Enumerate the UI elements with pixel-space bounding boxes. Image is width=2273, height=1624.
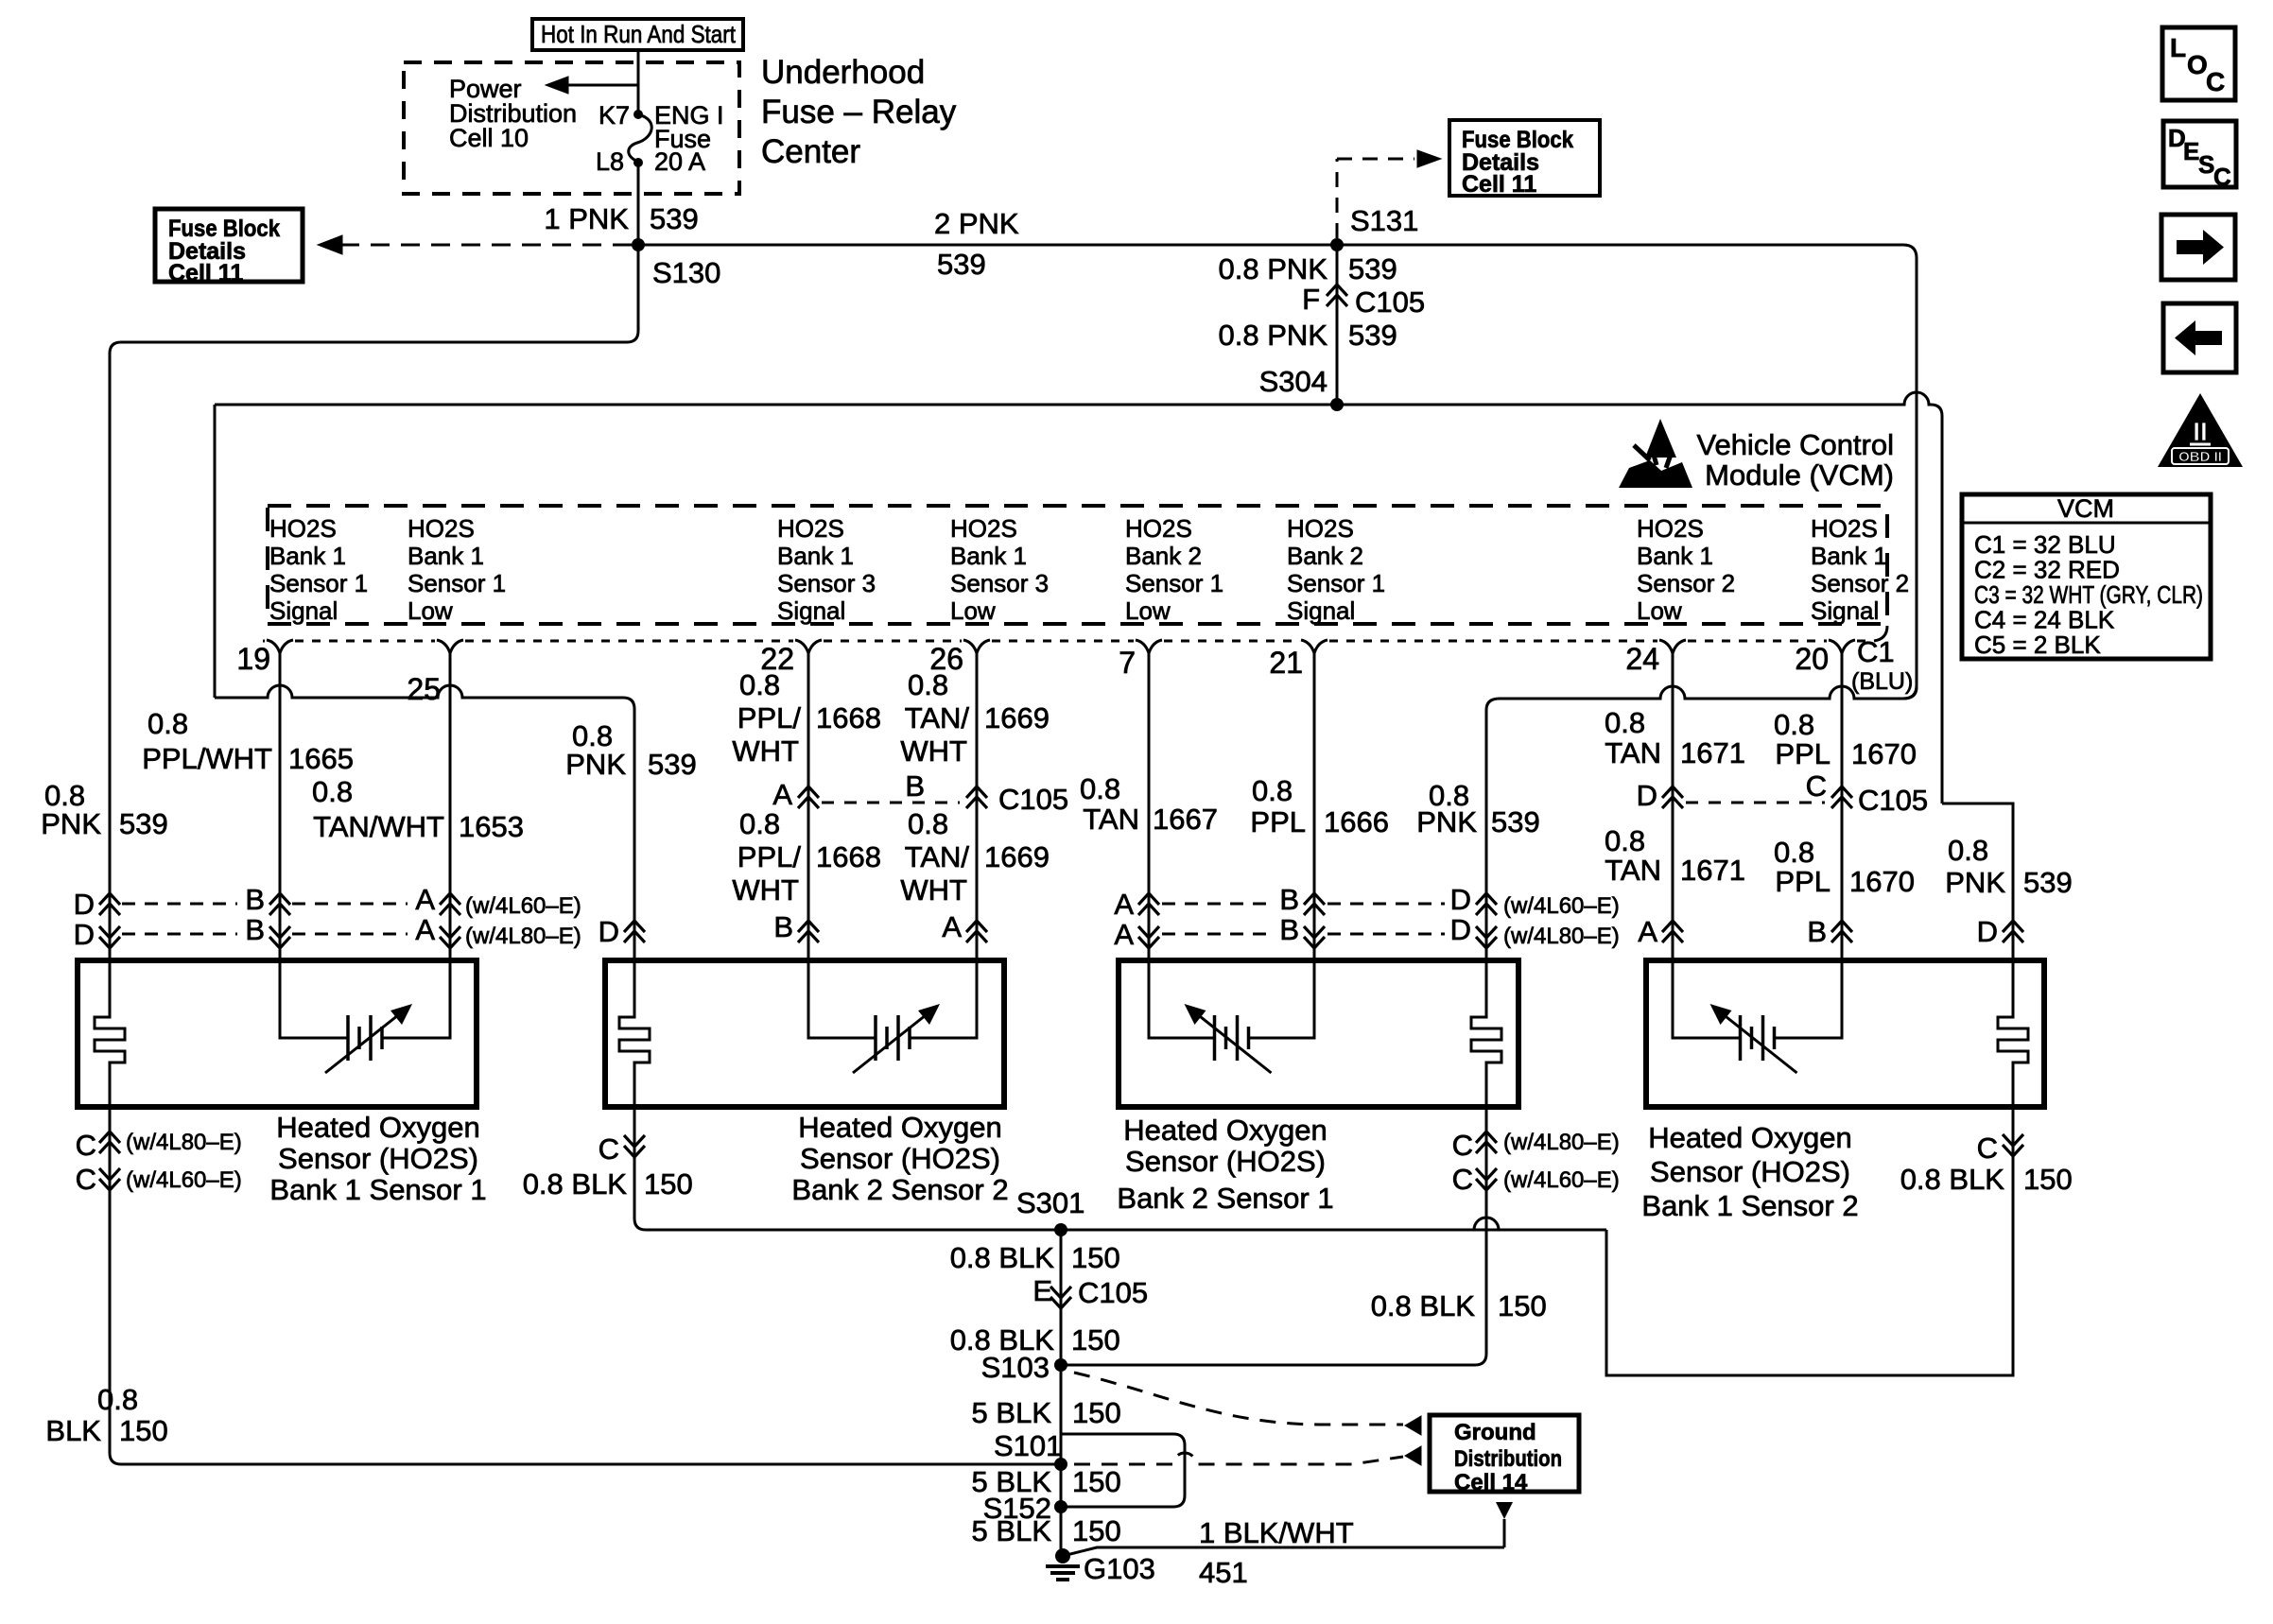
ESD sensitivity symbol (1645, 419, 1676, 458)
svg-text:A: A (1638, 915, 1657, 948)
svg-text:C1: C1 (1857, 635, 1895, 668)
svg-text:C105: C105 (1355, 285, 1425, 319)
svg-text:1671: 1671 (1680, 736, 1745, 769)
svg-text:(w/4L80–E): (w/4L80–E) (126, 1130, 242, 1155)
svg-text:C: C (2206, 67, 2225, 96)
svg-text:0.8: 0.8 (1080, 772, 1120, 805)
svg-text:539: 539 (1348, 319, 1397, 352)
svg-text:150: 150 (119, 1414, 168, 1447)
splice S131 (1330, 238, 1344, 251)
svg-text:HO2S: HO2S (269, 514, 337, 543)
connector C row w/4L80-E below box1 (99, 1132, 120, 1143)
wire: PNK 539 S304 horizontal line with hop at right vertical (215, 392, 1942, 803)
svg-text:C1 = 32 BLU: C1 = 32 BLU (1974, 530, 2116, 559)
margin icon: OBD II triangle (2158, 393, 2243, 467)
svg-text:D: D (1450, 883, 1471, 916)
svg-text:F: F (1302, 283, 1320, 316)
svg-text:B: B (245, 883, 265, 916)
wire: S304 right branch down to HO2S box4 heater (1942, 803, 2013, 960)
wire: S101 bypass loop to S152 (1061, 1434, 1185, 1507)
svg-text:150: 150 (2023, 1163, 2073, 1196)
svg-text:150: 150 (1072, 1514, 1121, 1547)
wire: Hot In Run feed down to fuse K7 (637, 50, 640, 114)
HO2S Bank 2 Sensor 2 box (605, 960, 1004, 1107)
svg-text:0.8 BLK: 0.8 BLK (1900, 1163, 2005, 1196)
svg-text:0.8 PNK: 0.8 PNK (1219, 319, 1328, 352)
svg-text:Ground: Ground (1454, 1420, 1536, 1445)
svg-text:1668: 1668 (816, 701, 881, 734)
svg-text:0.8: 0.8 (1774, 708, 1814, 741)
svg-text:C: C (1806, 769, 1827, 803)
svg-text:150: 150 (1072, 1465, 1121, 1498)
svg-text:539: 539 (648, 748, 697, 781)
svg-text:Bank 2: Bank 2 (1287, 542, 1363, 570)
svg-text:Bank 1: Bank 1 (950, 542, 1027, 570)
svg-text:C: C (76, 1129, 96, 1162)
svg-text:B: B (773, 910, 793, 943)
svg-text:A: A (772, 778, 792, 811)
svg-text:D: D (1450, 913, 1471, 946)
svg-text:HO2S: HO2S (950, 514, 1017, 543)
svg-text:1666: 1666 (1324, 805, 1389, 838)
dashed reference: S103 to Ground Distribution Cell 14 (1074, 1373, 1403, 1425)
svg-text:Heated Oxygen: Heated Oxygen (798, 1111, 1001, 1144)
wire: 0.8 BLK 150 from box1 pin C down and right to S101 (110, 1107, 1061, 1464)
wire: fuse L8 down to S130 (637, 163, 640, 245)
svg-text:(w/4L80–E): (w/4L80–E) (1503, 1130, 1620, 1155)
connector pin C below box2 (624, 1135, 645, 1147)
svg-text:1665: 1665 (288, 742, 354, 775)
svg-text:5 BLK: 5 BLK (972, 1514, 1052, 1547)
svg-text:Bank 1: Bank 1 (408, 542, 484, 570)
svg-text:O: O (2187, 50, 2208, 79)
svg-text:Fuse – Relay: Fuse – Relay (761, 94, 957, 130)
wire: 2 PNK 539 from S130 to S131 and to right edge (638, 245, 1917, 699)
svg-text:Signal: Signal (1811, 596, 1879, 625)
svg-text:TAN: TAN (1605, 854, 1661, 887)
svg-text:S103: S103 (981, 1351, 1050, 1384)
wire: pin 21 PPL 1666 down to HO2S box3 (1313, 652, 1316, 960)
svg-text:HO2S: HO2S (1125, 514, 1192, 543)
wire: box4 pin C down, left and up to S301 line (1606, 1107, 2013, 1375)
svg-text:Cell 14: Cell 14 (1454, 1470, 1528, 1495)
sensor element in box1 (280, 960, 348, 1038)
connector E C105 (1050, 1287, 1071, 1298)
VCM connector pin row (dashed with pin funnels) (263, 640, 265, 643)
svg-text:Sensor (HO2S): Sensor (HO2S) (1125, 1145, 1326, 1178)
connector C row w/4L60-E below box1 (99, 1168, 120, 1180)
heater element in box3 (1471, 960, 1501, 1107)
svg-text:S130: S130 (652, 256, 720, 289)
svg-text:D: D (599, 915, 619, 948)
dashed reference wire to left Fuse Block Details box (329, 244, 632, 247)
svg-text:Cell 11: Cell 11 (168, 260, 243, 286)
svg-text:Cell 11: Cell 11 (1462, 171, 1536, 198)
svg-text:Bank 1 Sensor 1: Bank 1 Sensor 1 (269, 1173, 486, 1206)
sensor element in box4 (1673, 960, 1741, 1038)
svg-text:TAN/: TAN/ (905, 701, 970, 734)
wire: pin 7 TAN 1667 down to HO2S box3 (1148, 652, 1151, 960)
svg-text:Bank 1 Sensor 2: Bank 1 Sensor 2 (1641, 1189, 1858, 1222)
svg-text:Heated Oxygen: Heated Oxygen (1123, 1114, 1327, 1147)
svg-text:B: B (1807, 915, 1827, 948)
svg-text:PPL/WHT: PPL/WHT (142, 742, 272, 775)
margin icon: right arrow box (2161, 215, 2235, 280)
svg-text:PNK: PNK (1945, 866, 2005, 899)
svg-text:L: L (2170, 33, 2186, 62)
svg-text:B: B (1279, 913, 1299, 946)
svg-text:150: 150 (1071, 1241, 1120, 1274)
svg-text:WHT: WHT (900, 873, 967, 907)
svg-text:WHT: WHT (732, 873, 799, 907)
svg-text:C4 = 24 BLK: C4 = 24 BLK (1974, 606, 2115, 634)
svg-text:0.8: 0.8 (97, 1383, 138, 1416)
svg-text:C105: C105 (998, 783, 1068, 816)
svg-text:HO2S: HO2S (1287, 514, 1354, 543)
svg-text:539: 539 (119, 807, 168, 840)
svg-text:Sensor 1: Sensor 1 (408, 569, 506, 597)
svg-text:25: 25 (407, 672, 441, 706)
svg-text:5 BLK: 5 BLK (972, 1396, 1052, 1429)
svg-text:Bank 1: Bank 1 (269, 542, 346, 570)
svg-text:Low: Low (950, 596, 996, 625)
svg-text:Bank 1: Bank 1 (1811, 542, 1887, 570)
HO2S Bank 2 Sensor 1 box (1119, 960, 1518, 1107)
svg-text:C: C (1452, 1129, 1473, 1162)
splice S130 (632, 238, 645, 251)
svg-text:Center: Center (761, 133, 860, 170)
arrow from Ground Distribution box down to G103 wire (1496, 1502, 1513, 1519)
svg-text:(w/4L60–E): (w/4L60–E) (126, 1167, 242, 1193)
svg-text:Sensor 1: Sensor 1 (1125, 569, 1223, 597)
svg-text:20: 20 (1795, 642, 1829, 676)
svg-text:0.8 BLK: 0.8 BLK (950, 1241, 1055, 1274)
svg-text:Hot In Run And Start: Hot In Run And Start (541, 20, 737, 48)
svg-text:S101: S101 (994, 1429, 1062, 1462)
svg-text:(w/4L80–E): (w/4L80–E) (1503, 924, 1620, 949)
svg-text:0.8: 0.8 (1252, 774, 1293, 807)
svg-text:A: A (1114, 888, 1134, 921)
svg-text:Cell 10: Cell 10 (449, 124, 529, 152)
wire: S101 down to S152 (1060, 1464, 1063, 1507)
svg-text:TAN/: TAN/ (905, 840, 970, 873)
svg-text:Heated Oxygen: Heated Oxygen (276, 1111, 479, 1144)
svg-text:150: 150 (644, 1167, 693, 1201)
svg-text:0.8: 0.8 (739, 807, 780, 840)
inline connector row w/4L60-E at HO2S box3 (pins A,B,D) (1138, 893, 1159, 905)
svg-text:20 A: 20 A (654, 147, 705, 176)
HO2S Bank 1 Sensor 2 box (1646, 960, 2044, 1107)
wire: box2 pin C down to S301 line (634, 1107, 1606, 1230)
svg-text:1670: 1670 (1849, 865, 1915, 898)
svg-text:21: 21 (1269, 646, 1303, 680)
power feed label box: Hot In Run And Start (532, 19, 743, 50)
svg-text:(w/4L60–E): (w/4L60–E) (465, 893, 581, 919)
svg-text:Bank 2 Sensor 2: Bank 2 Sensor 2 (791, 1173, 1008, 1206)
wire: pin 25 TAN/WHT 1653 down to HO2S box1 (449, 652, 452, 960)
margin icon: DESC box (2163, 121, 2236, 187)
connector F C105 (1327, 285, 1347, 296)
svg-text:D: D (1977, 915, 1998, 948)
svg-text:B: B (245, 913, 265, 946)
svg-text:150: 150 (1071, 1323, 1120, 1356)
connector C row w/4L60-E below box3 (1476, 1168, 1497, 1180)
svg-text:E: E (1032, 1274, 1052, 1307)
svg-text:C: C (1452, 1163, 1473, 1196)
svg-text:A: A (1114, 918, 1134, 951)
svg-text:(BLU): (BLU) (1851, 668, 1913, 695)
svg-text:Sensor 1: Sensor 1 (1287, 569, 1385, 597)
svg-text:0.8: 0.8 (1948, 834, 1988, 867)
svg-text:1 BLK/WHT: 1 BLK/WHT (1199, 1516, 1354, 1549)
svg-text:PNK: PNK (1416, 805, 1477, 838)
svg-text:539: 539 (937, 248, 986, 281)
svg-text:(w/4L80–E): (w/4L80–E) (465, 924, 581, 949)
svg-text:K7: K7 (599, 101, 630, 130)
svg-text:HO2S: HO2S (1811, 514, 1878, 543)
svg-text:451: 451 (1199, 1556, 1248, 1589)
svg-text:1 PNK: 1 PNK (544, 202, 629, 235)
svg-text:B: B (1279, 883, 1299, 916)
connector C105 pins D/C on wires 1671/1670 (1662, 786, 1683, 798)
svg-text:(w/4L60–E): (w/4L60–E) (1503, 893, 1620, 919)
wire: 1 BLK/WHT 451 from G103 to Ground Distribution (1063, 1547, 1504, 1556)
svg-text:Sensor 2: Sensor 2 (1637, 569, 1735, 597)
Underhood Fuse-Relay Center dashed box (404, 62, 739, 194)
svg-text:II: II (2193, 417, 2208, 446)
wire: left vertical feed down and across to HO2S box2 heater (214, 405, 217, 698)
svg-text:2 PNK: 2 PNK (934, 207, 1019, 240)
svg-text:539: 539 (650, 202, 699, 235)
svg-text:S304: S304 (1259, 365, 1327, 398)
svg-text:24: 24 (1625, 642, 1659, 676)
svg-text:1670: 1670 (1851, 737, 1917, 770)
svg-text:0.8: 0.8 (1605, 824, 1645, 857)
wire: S152 down to ground G103 (1060, 1507, 1063, 1556)
splice S101 (1054, 1458, 1067, 1471)
svg-text:C: C (2213, 163, 2231, 191)
fuse ENG I 20 A with terminals K7 and L8 (633, 110, 643, 119)
svg-text:1669: 1669 (984, 840, 1050, 873)
svg-text:0.8: 0.8 (739, 668, 780, 701)
connector C105 pins A/B on wires 1668/1669 (798, 786, 819, 798)
svg-text:1668: 1668 (816, 840, 881, 873)
svg-text:539: 539 (2023, 866, 2073, 899)
connector pin C below box4 (2003, 1134, 2023, 1146)
svg-text:OBD II: OBD II (2178, 449, 2222, 465)
svg-text:PNK: PNK (565, 748, 626, 781)
margin icon: left arrow box (2163, 303, 2236, 372)
margin icon: LOC box (2162, 27, 2235, 100)
splice S152 (1054, 1500, 1067, 1513)
svg-text:Underhood: Underhood (761, 54, 925, 91)
wire: box3 pin C down to S103 line (1061, 1107, 1486, 1365)
box: Fuse Block Details Cell 11 (right) (1449, 120, 1600, 196)
svg-text:HO2S: HO2S (777, 514, 844, 543)
connector pins D,B,A at HO2S box2 (624, 921, 645, 932)
svg-text:1671: 1671 (1680, 854, 1745, 887)
svg-text:TAN/WHT: TAN/WHT (313, 810, 444, 843)
svg-text:539: 539 (1491, 805, 1540, 838)
svg-text:(w/4L60–E): (w/4L60–E) (1503, 1167, 1620, 1193)
svg-text:HO2S: HO2S (408, 514, 475, 543)
svg-text:150: 150 (1072, 1396, 1121, 1429)
svg-text:Sensor (HO2S): Sensor (HO2S) (1650, 1155, 1850, 1188)
dashed reference: S101 to Ground Distribution Cell 14 (1074, 1453, 1403, 1464)
svg-text:C5 = 2 BLK: C5 = 2 BLK (1974, 631, 2101, 659)
svg-text:S301: S301 (1016, 1186, 1084, 1219)
svg-text:D: D (74, 918, 95, 951)
wire: S103 down to S101 (1060, 1365, 1063, 1464)
VCM dashed outline box (268, 506, 1887, 624)
svg-text:PPL: PPL (1775, 737, 1831, 770)
svg-text:Signal: Signal (777, 596, 845, 625)
splice S301 (1054, 1223, 1067, 1236)
svg-text:WHT: WHT (732, 734, 799, 768)
svg-text:Vehicle Control: Vehicle Control (1696, 428, 1894, 461)
svg-text:Bank 1: Bank 1 (1637, 542, 1713, 570)
svg-text:C2 = 32 RED: C2 = 32 RED (1974, 556, 2120, 584)
svg-text:Low: Low (1637, 596, 1682, 625)
wire: right horizontal PNK feed to HO2S box3 heater (1500, 686, 1903, 699)
svg-text:150: 150 (1498, 1289, 1547, 1322)
svg-text:1667: 1667 (1153, 803, 1218, 836)
svg-text:C105: C105 (1078, 1276, 1148, 1309)
inline connector row w/4L80-E at HO2S box1 (pins D,B,A) (99, 926, 120, 938)
svg-text:Low: Low (1125, 596, 1171, 625)
sensor element in box2 (808, 960, 876, 1038)
connector pins A,B,D at HO2S box4 (1662, 921, 1683, 932)
svg-text:G103: G103 (1084, 1552, 1155, 1585)
svg-text:C: C (599, 1132, 619, 1166)
svg-text:B: B (905, 769, 925, 803)
wire: pin 26 TAN/WHT 1669 down to HO2S box2 (976, 652, 979, 960)
svg-text:D: D (74, 888, 95, 921)
svg-text:Bank 1: Bank 1 (777, 542, 854, 570)
svg-text:TAN: TAN (1083, 803, 1139, 836)
arrow branch to Power Distribution (565, 84, 638, 87)
svg-text:19: 19 (236, 642, 270, 676)
svg-text:0.8 PNK: 0.8 PNK (1219, 252, 1328, 285)
svg-text:VCM: VCM (2057, 494, 2114, 523)
heater element in box1 (95, 960, 125, 1107)
svg-text:Heated Oxygen: Heated Oxygen (1648, 1121, 1851, 1154)
wire: S301 ground bus with hop over box3 wire (646, 1218, 1606, 1230)
svg-text:Sensor 3: Sensor 3 (777, 569, 876, 597)
splice S103 (1054, 1358, 1067, 1372)
svg-text:Low: Low (408, 596, 453, 625)
svg-text:C: C (1977, 1132, 1998, 1165)
inline connector row w/4L60-E at HO2S box1 (pins D,B,A) (99, 893, 120, 905)
wire: S301 down to S103 (1060, 1230, 1063, 1365)
svg-text:S: S (2198, 150, 2214, 179)
wire: S130 PNK feed down the left edge to HO2S box1 heater (110, 245, 638, 960)
svg-text:7: 7 (1119, 646, 1136, 680)
svg-text:0.8: 0.8 (312, 775, 353, 808)
svg-text:WHT: WHT (900, 734, 967, 768)
connector C row w/4L80-E below box3 (1476, 1132, 1497, 1143)
svg-text:L8: L8 (596, 147, 624, 176)
ground G103 (1055, 1548, 1070, 1564)
svg-text:S131: S131 (1350, 204, 1418, 237)
box: Fuse Block Details Cell 11 (left) (155, 209, 303, 282)
svg-text:Sensor (HO2S): Sensor (HO2S) (278, 1142, 478, 1175)
HO2S Bank 1 Sensor 1 box (78, 960, 477, 1107)
svg-text:PNK: PNK (41, 807, 101, 840)
svg-text:A: A (942, 910, 962, 943)
inline connector row w/4L80-E at HO2S box3 (pins A,B,D) (1138, 926, 1159, 938)
wire: pin 19 PPL/WHT 1665 down to HO2S box1 (279, 652, 282, 960)
svg-text:539: 539 (1348, 252, 1397, 285)
svg-text:D: D (1637, 779, 1657, 812)
VCM connector legend box (1962, 494, 2211, 659)
svg-text:Sensor (HO2S): Sensor (HO2S) (800, 1142, 1000, 1175)
svg-text:C3 = 32 WHT (GRY, CLR): C3 = 32 WHT (GRY, CLR) (1974, 580, 2203, 609)
wire: pin 20 PPL 1670 down to HO2S box4 (1841, 652, 1844, 960)
svg-text:0.8: 0.8 (147, 707, 188, 740)
svg-text:1653: 1653 (459, 810, 524, 843)
svg-text:Sensor 3: Sensor 3 (950, 569, 1049, 597)
svg-text:A: A (415, 883, 435, 916)
svg-text:Distribution: Distribution (1454, 1446, 1562, 1472)
svg-text:HO2S: HO2S (1637, 514, 1704, 543)
svg-text:0.8: 0.8 (1774, 836, 1814, 869)
heater element in box2 (619, 960, 650, 1107)
svg-text:0.8 BLK: 0.8 BLK (523, 1167, 628, 1201)
svg-text:0.8: 0.8 (908, 668, 948, 701)
svg-text:Bank 2: Bank 2 (1125, 542, 1202, 570)
wire: pin 24 TAN 1671 down to HO2S box4 (1672, 652, 1674, 960)
wire: pin 22 PPL/WHT 1668 down to HO2S box2 (807, 652, 810, 960)
svg-text:TAN: TAN (1605, 736, 1661, 769)
svg-text:Module (VCM): Module (VCM) (1705, 458, 1894, 492)
svg-text:Sensor 1: Sensor 1 (269, 569, 368, 597)
svg-text:BLK: BLK (45, 1414, 101, 1447)
svg-text:PPL: PPL (1775, 865, 1831, 898)
svg-text:C: C (76, 1163, 96, 1196)
svg-text:Sensor 2: Sensor 2 (1811, 569, 1909, 597)
svg-text:Bank 2 Sensor 1: Bank 2 Sensor 1 (1117, 1182, 1333, 1215)
svg-text:Signal: Signal (269, 596, 338, 625)
svg-text:1669: 1669 (984, 701, 1050, 734)
svg-text:E: E (2183, 137, 2199, 165)
svg-text:0.8 BLK: 0.8 BLK (1371, 1289, 1476, 1322)
box: Ground Distribution Cell 14 (1430, 1415, 1579, 1492)
heater element in box4 (1998, 960, 2028, 1107)
dashed reference wire to right Fuse Block Details box (1336, 159, 1339, 238)
svg-text:C105: C105 (1858, 784, 1928, 817)
svg-text:PPL: PPL (1250, 805, 1306, 838)
wire: 0.8 PNK 539 from S131 down to S304 (1336, 245, 1339, 405)
svg-text:PPL/: PPL/ (737, 840, 802, 873)
sensor element in box3 (1149, 960, 1215, 1038)
svg-text:0.8: 0.8 (908, 807, 948, 840)
svg-text:0.8: 0.8 (1605, 706, 1645, 739)
svg-text:Signal: Signal (1287, 596, 1355, 625)
svg-text:PPL/: PPL/ (737, 701, 802, 734)
svg-text:A: A (415, 913, 435, 946)
